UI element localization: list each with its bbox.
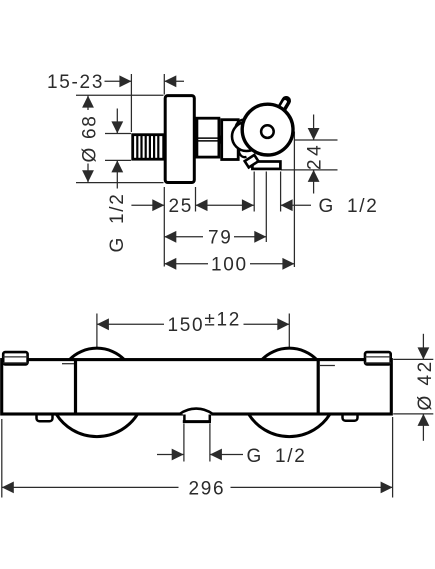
knob inner circle bbox=[261, 125, 274, 138]
dimension 150+-12 text bbox=[168, 310, 241, 337]
dimension 15-23 text bbox=[47, 72, 104, 93]
extension line outlet stub right bbox=[209, 424, 211, 462]
dimension 150+-12 right arrow bbox=[244, 318, 290, 330]
extension line outlet left bbox=[253, 172, 255, 212]
label G 1/2 stub text bbox=[247, 446, 307, 467]
dimension 296 left arrow bbox=[2, 482, 179, 494]
hex nut flat seam lower bbox=[196, 140, 221, 142]
dimension 296 right arrow bbox=[231, 482, 393, 494]
extension line outlet stub left bbox=[183, 424, 185, 462]
dimension O68 lower arrow bbox=[82, 164, 94, 183]
right service tab bbox=[343, 412, 358, 421]
bar mark right bbox=[320, 365, 335, 367]
dimension O42 top extension bbox=[393, 358, 433, 360]
threaded nipple body bbox=[133, 135, 164, 160]
dimension 79 right arrow bbox=[234, 231, 266, 243]
dimension 79 text bbox=[208, 228, 233, 249]
shower outlet stub sides bbox=[184, 415, 209, 421]
dimension O68 upper arrow bbox=[82, 96, 94, 110]
left handle top arc bbox=[69, 348, 124, 360]
extension line wall face bbox=[130, 74, 132, 132]
handle skirt bump lower bbox=[239, 149, 246, 158]
bar seam left bbox=[74, 360, 77, 414]
dimension G1/2 nipple lower arrow bbox=[111, 160, 123, 188]
extension line knob right bbox=[293, 132, 295, 268]
knob tab lever bbox=[282, 101, 287, 108]
left escutcheon bottom arc bbox=[56, 414, 137, 436]
dimension 24 text bbox=[305, 142, 326, 170]
extension line escutcheon back lower bbox=[163, 187, 165, 267]
hex nut flat seam upper bbox=[196, 137, 221, 139]
left service tab bbox=[37, 412, 53, 422]
dimension 25 left arrow bbox=[131, 199, 164, 211]
dimension 25 right arrow with leader to G 1/2 bbox=[196, 199, 254, 211]
dimension 79 left arrow bbox=[164, 231, 203, 243]
svg-text:G 1/2: G 1/2 bbox=[107, 193, 128, 253]
nipple thread hatching bbox=[137, 136, 158, 158]
bar seam right bbox=[317, 360, 320, 414]
svg-text:Ø 42: Ø 42 bbox=[415, 359, 435, 410]
dimension O42 lower arrow bbox=[418, 414, 430, 441]
dimension O68 bottom extension line bbox=[76, 182, 164, 184]
dimension 100 text bbox=[211, 255, 248, 276]
adapter ring bbox=[222, 120, 239, 160]
svg-text:15-23: 15-23 bbox=[47, 72, 104, 93]
extension line outlet right bbox=[280, 172, 282, 212]
leader arrow outlet G1/2 bbox=[281, 199, 311, 211]
dimension G1/2 nipple upper arrow bbox=[111, 109, 123, 134]
dimension 24 bottom extension bbox=[281, 169, 338, 171]
extension line bar left end bbox=[1, 419, 3, 498]
dimension G1/2 stub right arrow bbox=[210, 449, 243, 461]
right union nut inner line bbox=[365, 356, 391, 358]
dimension 24 lower arrow bbox=[308, 170, 320, 194]
extension line outlet centre bbox=[265, 172, 267, 243]
left union nut inner line bbox=[3, 356, 27, 358]
dimension O42 upper arrow bbox=[418, 334, 430, 360]
dimension O42 bottom extension bbox=[393, 413, 433, 415]
escutcheon disc side view bbox=[165, 96, 194, 183]
right union nut box bbox=[365, 352, 391, 364]
dimension 100 right arrow bbox=[250, 258, 294, 270]
svg-text:G 1/2: G 1/2 bbox=[319, 196, 379, 217]
extension line left handle centre bbox=[96, 314, 98, 348]
dimension 24 upper arrow bbox=[308, 115, 320, 141]
dimension 24 top extension bbox=[295, 139, 338, 141]
dimension 100 left arrow bbox=[164, 258, 208, 270]
label G 1/2 nipple text bbox=[107, 193, 128, 253]
svg-text:Ø 68: Ø 68 bbox=[80, 115, 101, 163]
dimension 25 text bbox=[169, 196, 194, 217]
shower outlet stub base bbox=[183, 412, 211, 421]
dimension G1/2 stub left arrow bbox=[157, 449, 184, 461]
right handle top arc bbox=[262, 348, 317, 360]
knob circle bbox=[242, 104, 293, 155]
svg-text:100: 100 bbox=[211, 255, 248, 276]
handle skirt bump upper bbox=[235, 119, 254, 138]
hex nut side view bbox=[197, 118, 219, 157]
dimension 150+-12 left arrow bbox=[97, 318, 164, 330]
dimension O42 text bbox=[415, 359, 435, 410]
handle skirt bump main bbox=[232, 122, 261, 151]
dimension 296 text bbox=[189, 478, 226, 499]
shower outlet stub bottom edge bbox=[183, 420, 211, 423]
bar mark left bbox=[62, 363, 74, 365]
shower outlet stub dome bbox=[179, 409, 213, 415]
svg-text:296: 296 bbox=[189, 478, 226, 499]
label G 1/2 outlet text bbox=[319, 196, 379, 217]
right escutcheon bottom arc bbox=[249, 414, 330, 436]
extension line bar right end bbox=[392, 417, 394, 498]
mixer bar body bbox=[2, 360, 392, 414]
dimension G1/2 nipple top extension bbox=[105, 133, 131, 135]
dimension 15-23 line right arrow bbox=[164, 75, 184, 87]
dimension O68 top extension line bbox=[76, 94, 164, 96]
svg-text:79: 79 bbox=[208, 228, 233, 249]
extension line escutcheon front bbox=[195, 187, 197, 212]
extension line right handle centre bbox=[288, 314, 290, 349]
extension line escutcheon back upper bbox=[163, 74, 165, 95]
svg-text:25: 25 bbox=[169, 196, 194, 217]
nut-adapter joint wedge bbox=[218, 136, 223, 144]
svg-text:24: 24 bbox=[305, 142, 326, 170]
dimension O68 text bbox=[80, 115, 101, 163]
dimension 15-23 line left arrow bbox=[105, 75, 132, 87]
outlet elbow tilted box bbox=[245, 155, 259, 168]
outlet block under knob bbox=[252, 162, 280, 169]
dimension G1/2 nipple bottom extension bbox=[105, 159, 131, 161]
svg-text:G 1/2: G 1/2 bbox=[247, 446, 307, 467]
left union nut box bbox=[3, 352, 27, 364]
